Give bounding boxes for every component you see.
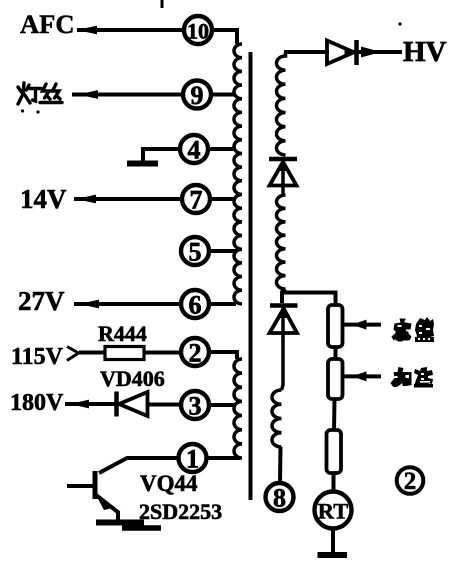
svg-text:115V: 115V — [11, 344, 64, 370]
wire pin 3 to winding — [208, 403, 236, 407]
wire RV3 to RT — [332, 473, 336, 491]
wire pin 6 to winding — [208, 302, 236, 306]
wire RV2 to RV3 — [332, 399, 337, 431]
svg-text:VQ44: VQ44 — [140, 471, 198, 496]
page reference circled 2 — [397, 467, 424, 495]
pin 6 of transformer T1 — [181, 290, 209, 320]
wire 115V to resistor R444 — [79, 351, 106, 355]
transformer T1 core — [249, 52, 253, 500]
accelerate tap arrow into RV2 — [344, 371, 381, 381]
diode VD406 — [117, 392, 148, 417]
svg-text:14V: 14V — [20, 184, 67, 214]
wire lower secondary winding to pin 8 — [278, 447, 283, 483]
svg-text:9: 9 — [191, 81, 204, 110]
label jiasu (accelerate) — [391, 367, 434, 388]
svg-text:2: 2 — [404, 468, 417, 495]
rectifier diode D2 in secondary (lower) — [270, 306, 298, 343]
svg-text:180V: 180V — [10, 390, 64, 416]
svg-text:6: 6 — [189, 291, 202, 320]
ground at pin 4 — [127, 161, 158, 167]
transformer T1 secondary winding upper section — [277, 52, 286, 155]
focus resistor RV3 — [327, 430, 342, 473]
svg-text:27V: 27V — [18, 286, 65, 316]
wire R444 to pin 2 — [144, 351, 181, 355]
wire HV diode to HV with arrow — [358, 47, 402, 58]
svg-text:HV: HV — [403, 36, 447, 68]
stray dot top right — [398, 22, 401, 25]
wire pin 4 to winding — [207, 147, 236, 151]
transformer T1 secondary winding middle section — [276, 195, 285, 289]
ground at transistor emitter — [96, 523, 161, 529]
wire AFC to pin 10 with arrow — [77, 26, 184, 35]
wire D2 to lower secondary winding — [282, 340, 284, 390]
wire secondary top to HV diode — [284, 50, 329, 54]
pin 7 of transformer T1 — [182, 185, 210, 215]
pin 2 of transformer T1 — [181, 338, 209, 368]
resistor R444 — [105, 347, 144, 360]
wire 180V to diode VD406 with arrow — [65, 400, 116, 409]
pin 3 of transformer T1 — [181, 391, 209, 421]
pin 9 of transformer T1 — [183, 81, 211, 111]
ground below RT — [318, 552, 348, 558]
wire VD406 to pin 3 — [147, 403, 181, 407]
stray tick mark top — [161, 0, 164, 8]
wire pin 9 to winding — [210, 93, 236, 97]
wire pin 5 to winding — [208, 249, 236, 253]
transformer T1 primary winding upper section — [234, 44, 242, 304]
wire 27V to pin 6 with arrow — [74, 300, 181, 309]
svg-text:VD406: VD406 — [100, 366, 165, 391]
wire RV1 to RV2 — [334, 347, 338, 360]
svg-text:3: 3 — [189, 392, 202, 421]
wire 14V to pin 7 with arrow — [74, 195, 182, 204]
thermistor RT — [315, 492, 352, 529]
label dengsi (filament) — [18, 83, 62, 104]
svg-text:10: 10 — [187, 19, 209, 44]
wire pin 4 to ground — [143, 149, 180, 161]
svg-text:4: 4 — [188, 136, 201, 165]
wire pin 1 to transistor collector — [99, 458, 178, 473]
focus resistor RV1 — [328, 305, 343, 347]
svg-text:RT: RT — [318, 499, 348, 524]
stray dots — [21, 109, 24, 112]
pin 8 of transformer T1 — [266, 483, 294, 513]
svg-text:AFC: AFC — [20, 9, 74, 39]
chevron input 115V — [67, 347, 79, 361]
junction secondary to focus divider — [282, 289, 286, 303]
pin 5 of transformer T1 — [181, 237, 209, 267]
wire pin 10 to primary winding top — [212, 30, 237, 44]
wire junction to resistor chain top — [282, 293, 336, 306]
svg-text:2: 2 — [189, 339, 202, 368]
wire pin 7 to winding — [209, 197, 236, 201]
wire pin 2 to primary lower winding top — [209, 352, 237, 359]
rectifier diode D1 in secondary (upper) — [269, 159, 297, 195]
svg-text:8: 8 — [273, 484, 286, 513]
label jujiao (focus) — [392, 317, 435, 342]
wire filament to pin 9 with arrow — [72, 90, 183, 99]
wire pin 1 to winding — [206, 456, 240, 460]
focus resistor RV2 — [328, 359, 343, 399]
transformer T1 primary winding lower section — [234, 359, 242, 458]
transformer T1 secondary winding lower section — [272, 390, 282, 447]
svg-text:5: 5 — [189, 238, 202, 267]
transistor VQ44 2SD2253 — [67, 471, 119, 523]
HV rectifier diode — [327, 40, 357, 65]
svg-text:1: 1 — [186, 445, 199, 474]
pin 4 of transformer T1 — [180, 135, 208, 165]
svg-text:R444: R444 — [98, 321, 147, 346]
focus tap arrow into RV1 — [344, 320, 381, 330]
svg-text:7: 7 — [190, 186, 203, 215]
pin 1 of transformer T1 — [179, 444, 207, 474]
svg-text:2SD2253: 2SD2253 — [139, 499, 222, 524]
wire RT to ground — [331, 528, 335, 552]
pin 10 of transformer T1 — [184, 16, 212, 44]
